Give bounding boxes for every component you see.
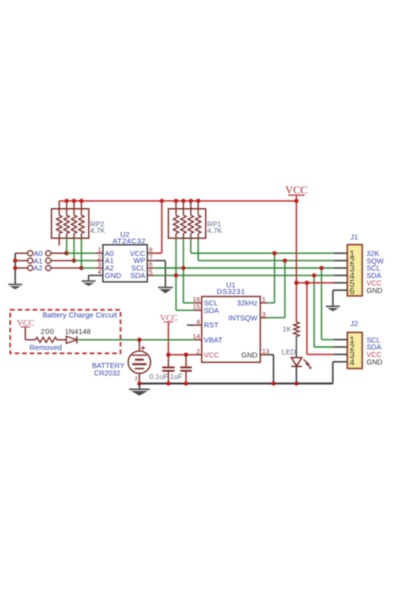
svg-text:1K: 1K (283, 325, 292, 334)
wire net A0 (jumper to U2 pin 1) (51, 252, 103, 254)
wire RP2 pin 1 stub (unconnected) (58, 238, 60, 245)
wire RP2 pin to net A1 (72, 238, 76, 263)
junction battery / ground rail (137, 381, 141, 385)
svg-text:DS3231: DS3231 (217, 287, 246, 296)
wire VCC branch down to J2 pin 3 (305, 281, 334, 355)
svg-text:A2: A2 (34, 264, 43, 273)
wire J1 pin 6 to GND (333, 290, 347, 306)
wire RP1 pin to SDA and down to U1 SDA (174, 238, 194, 310)
wire jumpers to GND (left vertical) (13, 253, 28, 284)
svg-text:VCC: VCC (160, 312, 178, 322)
svg-text:1: 1 (262, 297, 266, 304)
label BATTERY CR2032 (92, 361, 125, 378)
svg-text:SDA: SDA (130, 271, 145, 280)
J2 pin numbers 1-4 (349, 335, 354, 367)
wire net A2 (jumper to U2 pin 3) (51, 267, 103, 269)
J1 net labels 32K SQW SCL SDA VCC GND (367, 249, 384, 295)
resistor network RP1 body (168, 209, 205, 238)
wire VCC top rail (59, 200, 296, 202)
wire J2 pin 4 to ground rail (333, 362, 348, 384)
wire U2 pin 8 VCC to rail (147, 201, 162, 253)
connector J2 body (347, 332, 362, 368)
U2 pin names (105, 249, 146, 280)
U1 pin numbers 16 15 4 14 2 1 3 13 (193, 297, 270, 356)
ground symbol (U2 pin 7 WP) (158, 287, 173, 293)
wire net A1 (jumper to U2 pin 2) (51, 260, 103, 262)
svg-text:2: 2 (98, 254, 102, 261)
diode D1 1N4148 (66, 336, 77, 343)
connector J1 body (347, 245, 362, 296)
wire RP2 pin to net A2 (79, 238, 83, 270)
junction VCC rail / U2 VCC (160, 199, 164, 203)
svg-text:GND: GND (241, 350, 257, 359)
IC U2 AT24C32 body (103, 245, 147, 282)
ground symbol (J1 pin 6) (326, 306, 340, 311)
label U1 DS3231 (217, 281, 246, 296)
svg-text:32kHz: 32kHz (237, 299, 258, 308)
junction C1 / ground rail (166, 381, 170, 385)
IC U1 DS3231 body (202, 297, 261, 363)
label U2 AT24C32 (112, 230, 145, 245)
wire U2 pin 4 GND (89, 275, 103, 281)
svg-text:1: 1 (98, 247, 102, 254)
svg-text:1uF: 1uF (170, 372, 183, 381)
ground symbol (U2 pin 4) (82, 281, 96, 286)
svg-text:GND: GND (105, 271, 121, 280)
svg-text:VCC: VCC (17, 317, 35, 327)
wire SCL branch down to J2 pin 1 (319, 266, 334, 340)
ground symbol (jumpers) (8, 284, 22, 289)
svg-text:200: 200 (41, 327, 55, 336)
svg-text:4: 4 (349, 357, 354, 367)
junction VCC rail / VCC symbol (294, 199, 298, 203)
wire SDA branch down to J2 pin 2 (312, 273, 334, 347)
svg-text:3: 3 (262, 311, 266, 318)
wire RP1 pins to VCC rail + junctions (174, 199, 201, 209)
VCC supply symbol (charge circuit) (17, 317, 35, 327)
svg-text:AT24C32: AT24C32 (112, 236, 145, 245)
solder jumper A0 (28, 249, 51, 258)
J1 pin numbers 1-6 (349, 249, 354, 296)
J2 net labels SCL SDA VCC GND (367, 335, 383, 366)
svg-text:GND: GND (367, 286, 383, 295)
battery B1 CR2032 (128, 340, 150, 384)
U1 pin stubs (SCL SDA VBAT) (194, 303, 201, 340)
svg-text:4.7K: 4.7K (90, 226, 105, 235)
ground symbol (battery) (129, 389, 150, 395)
svg-text:LED: LED (282, 348, 296, 357)
wire U1 pin 13 GND to ground rail (260, 355, 273, 384)
solder jumper A1 (28, 256, 51, 265)
resistor R1 1K (294, 322, 300, 337)
wire net SDA (U2 pin 5 to J1 pin 4) (147, 274, 334, 276)
svg-text:1N4148: 1N4148 (65, 327, 91, 336)
svg-text:6: 6 (349, 286, 354, 296)
wire RP1 pin to SCL and down to U1 SCL (181, 238, 194, 303)
wire RP2 pins to VCC rail + junctions (59, 199, 83, 209)
wire VCC main vertical (top to 1K resistor) (295, 201, 297, 322)
capacitor C1 0.1uF (162, 355, 174, 384)
svg-text:J2: J2 (350, 319, 358, 328)
wire net 32K (RP1 pin to J1 pin 1) (191, 238, 334, 253)
label RP1 4.7K (207, 219, 222, 235)
svg-text:2: 2 (135, 377, 138, 383)
VCC supply symbol (top) (285, 184, 307, 201)
svg-text:VCC: VCC (204, 350, 219, 359)
svg-text:J1: J1 (350, 233, 358, 242)
wire LED to ground rail (295, 366, 297, 383)
wire ground rail (bottom) (139, 382, 332, 384)
wire net VCC (symbol down to U1 pin 2) (166, 322, 201, 357)
wire VCC to resistor 200 (25, 327, 35, 340)
svg-text:VBAT: VBAT (204, 335, 223, 344)
wire net SCL (U2 pin 6 to J1 pin 3) (147, 267, 334, 269)
J1 pin stubs (334, 253, 347, 283)
resistor 200 (removed) (35, 337, 57, 342)
wire resistor to diode (57, 339, 66, 341)
capacitor C2 1uF (180, 355, 192, 384)
solder jumper A2 (28, 264, 51, 273)
VCC supply symbol (near U1) (160, 312, 178, 322)
junction U1 GND / ground rail (271, 381, 275, 385)
wire 1K to LED (295, 336, 297, 357)
LED D2 (291, 358, 311, 369)
wire net VBAT (diode to U1 pin 14) (77, 338, 194, 342)
wire U2 pin 7 WP to GND (147, 261, 165, 288)
svg-text:Removed: Removed (29, 343, 62, 352)
wire U1 pin 1 32kHz up to 32K net (260, 251, 276, 303)
svg-text:INTSQW: INTSQW (228, 313, 257, 322)
svg-text:GND: GND (367, 358, 383, 367)
U2 pin numbers 1 2 3 4 8 7 6 5 (98, 247, 153, 276)
battery charge circuit dashed box (10, 310, 120, 354)
wire net VCC to J1 pin 5 (294, 281, 334, 285)
wire battery to ground symbol (138, 384, 140, 390)
svg-text:RST: RST (204, 321, 219, 330)
label RP2 4.7K (90, 219, 105, 235)
junction LED / ground rail (294, 381, 298, 385)
wire U1 pin 4 RST stub (187, 324, 202, 326)
svg-text:3: 3 (98, 262, 102, 269)
svg-text:CR2032: CR2032 (94, 369, 120, 378)
svg-text:4.7K: 4.7K (207, 226, 222, 235)
U1 pin names (204, 299, 258, 360)
wire net SQW (RP1 pin to J1 pin 2) (198, 238, 334, 260)
svg-text:0.1uF: 0.1uF (149, 372, 168, 381)
J2 pin stubs (334, 340, 347, 355)
resistor network RP2 body (52, 209, 89, 238)
junction C2 / ground rail (184, 381, 188, 385)
wire U1 pin 3 INTSQW up to SQW net (260, 258, 287, 317)
wire RP2 pin to net A0 (64, 238, 68, 255)
svg-text:VCC: VCC (285, 184, 307, 196)
svg-text:Battery Charge Circuit: Battery Charge Circuit (42, 311, 118, 320)
svg-text:SDA: SDA (204, 306, 219, 315)
